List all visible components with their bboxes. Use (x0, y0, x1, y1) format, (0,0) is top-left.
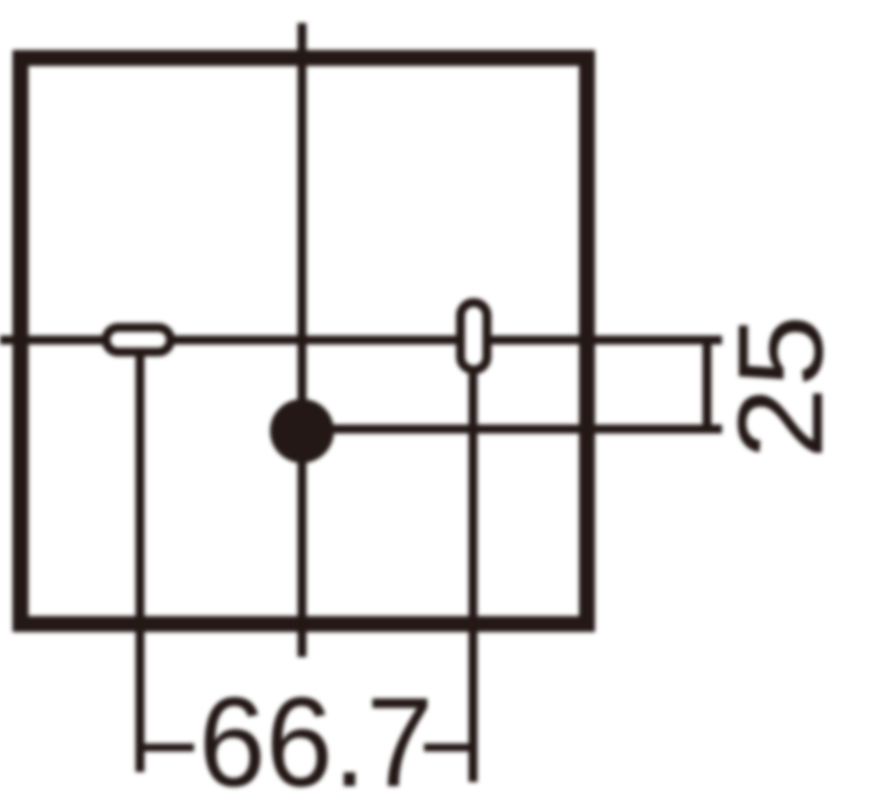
svg-text:66.7: 66.7 (199, 672, 434, 800)
svg-text:25: 25 (712, 315, 848, 460)
